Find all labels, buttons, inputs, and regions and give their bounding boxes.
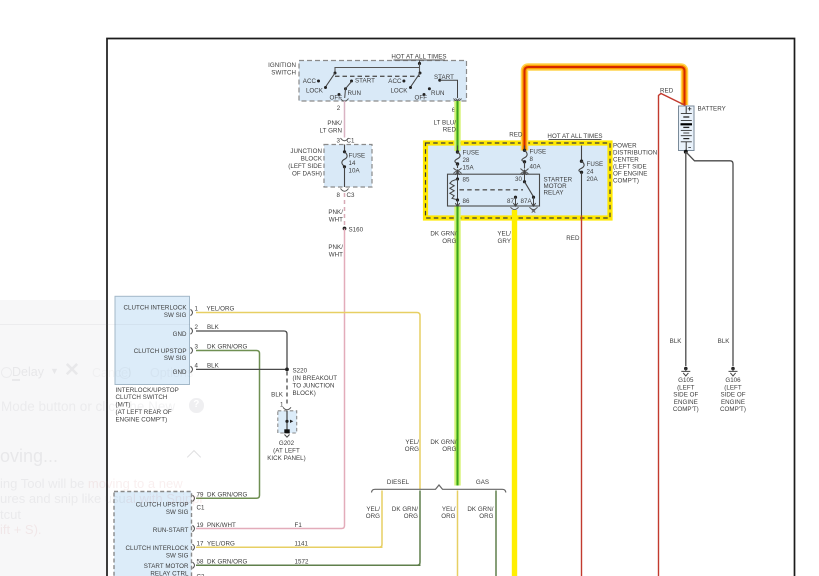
relay mechanical link (dashed) [460,189,524,191]
wire DK GRN/ORG diesel branch [392,491,420,566]
svg-text:G105: G105 [678,377,694,384]
svg-text:ORG: ORG [442,238,456,245]
clutch switch pin 4 [191,363,199,373]
svg-text:SW SIG: SW SIG [164,355,187,362]
wire BLK battery to G106 [686,152,733,366]
svg-text:ORG: ORG [366,513,380,520]
wire RED fuse 24 down [566,216,581,576]
svg-text:S160: S160 [349,227,364,234]
svg-text:ORG: ORG [404,513,418,520]
splice S220 [285,367,337,397]
svg-text:INTERLOCK/UPSTOP: INTERLOCK/UPSTOP [116,387,179,394]
ignition switch right pole contacts and lever [388,72,457,102]
svg-text:DK GRN/ORG: DK GRN/ORG [207,559,248,566]
wire label DK GRN/ORG above split [430,439,456,453]
svg-text:SIDE OF: SIDE OF [720,392,745,399]
svg-text:SIDE OF: SIDE OF [673,392,698,399]
wire RED battery positive thin branch [659,88,686,576]
svg-text:86: 86 [463,198,470,205]
power distribution center box [426,143,658,219]
fuse 28 15A [455,146,479,172]
svg-text:DK GRN/: DK GRN/ [430,231,456,238]
svg-text:ACC: ACC [303,78,317,85]
clutch switch pin 1 [191,306,199,316]
svg-text:GRY: GRY [498,238,511,245]
svg-text:OF DASH): OF DASH) [292,171,322,178]
relay pin 87 [507,196,518,207]
ignition switch left pole contacts and lever [303,72,375,102]
svg-text:ACC: ACC [388,78,402,85]
wire YEL/GRY relay 87 down (yellow highlighted) [497,210,514,576]
svg-text:HOT AT ALL TIMES: HOT AT ALL TIMES [391,54,446,61]
junction block [288,145,372,188]
relay coil [450,179,458,200]
svg-text:START: START [434,74,454,81]
svg-text:ORG: ORG [442,446,456,453]
svg-text:IGNITION: IGNITION [268,62,296,69]
svg-text:BLK: BLK [670,338,683,345]
svg-text:BLK: BLK [207,324,220,331]
svg-text:GND: GND [173,331,187,338]
svg-text:(LEFT: (LEFT [677,384,695,391]
svg-text:LT GRN: LT GRN [320,128,342,135]
svg-text:(LEFT SIDE: (LEFT SIDE [613,164,647,171]
svg-text:F1: F1 [295,522,303,529]
svg-text:COMP'T): COMP'T) [673,406,699,413]
svg-text:BLOCK: BLOCK [301,156,323,163]
svg-text:2: 2 [337,105,341,112]
connector C3 [337,189,356,200]
svg-text:ENGINE COMP'T): ENGINE COMP'T) [116,416,168,423]
svg-text:BLK: BLK [718,338,731,345]
svg-text:PNK/: PNK/ [328,244,343,251]
ground G105 [673,367,699,413]
wire RED battery feed (highlighted thick) [509,67,684,151]
node HOT AT ALL TIMES (ignition feed) [391,54,446,66]
svg-text:4: 4 [195,363,199,370]
svg-text:(IN BREAKOUT: (IN BREAKOUT [293,375,338,382]
svg-text:SW SIG: SW SIG [166,552,189,559]
svg-text:FUSE: FUSE [530,149,547,156]
connector arcs fuse28 to relay [454,168,462,174]
svg-text:PNK/: PNK/ [328,209,343,216]
svg-text:COMP'T): COMP'T) [720,406,746,413]
wire ignition internal bus [335,64,420,73]
svg-text:RUN: RUN [348,90,362,97]
svg-text:20A: 20A [587,176,599,183]
svg-text:C1: C1 [347,138,356,145]
svg-text:LT BLU/: LT BLU/ [434,120,457,127]
relay pin 87A [521,197,536,206]
svg-text:28: 28 [463,157,470,164]
svg-text:START: START [355,78,375,85]
svg-text:87A: 87A [521,198,533,205]
connector C1 [337,138,356,145]
svg-text:FUSE: FUSE [463,150,480,157]
ignition switch box [268,61,466,102]
ground G106 [720,367,746,413]
svg-text:ORG: ORG [479,513,493,520]
faded paragraph [0,476,202,538]
svg-text:DK GRN/: DK GRN/ [430,439,456,446]
svg-text:CLUTCH UPSTOP: CLUTCH UPSTOP [134,348,187,355]
splice S160 [343,227,364,234]
wire DK GRN/ORG pin3 to pin 79 [196,344,260,499]
fuse 14 10A [342,145,365,188]
svg-text:58: 58 [197,559,204,566]
svg-text:FUSE: FUSE [587,161,604,168]
G202 connector pin 1 [280,401,291,410]
wire PNK/WHT C3 to S160 (dashed) [328,193,344,227]
relay pin 86 [455,198,470,207]
PCM connector box [114,492,192,576]
svg-text:PNK/WHT: PNK/WHT [207,522,236,529]
svg-text:YEL/ORG: YEL/ORG [207,306,235,313]
wire BLK pin4 to S220 [196,363,287,370]
svg-text:SWITCH: SWITCH [271,70,296,77]
svg-text:ORG: ORG [441,513,455,520]
wire label PNK/WHT pin 19, circuit F1 [207,522,302,529]
svg-text:8: 8 [530,156,534,163]
svg-text:GAS: GAS [476,479,489,486]
svg-text:OF ENGINE: OF ENGINE [613,171,647,178]
svg-text:START MOTOR: START MOTOR [144,563,189,570]
clutch switch pin 2 [191,324,199,334]
node HOT AT ALL TIMES (PDC) [547,133,602,140]
wire BLK S220 to G202 (dashed) [271,372,287,407]
svg-text:PNK/: PNK/ [327,120,342,127]
wire BLK pin2 to S220 [196,324,287,368]
svg-text:G202: G202 [279,440,295,447]
svg-text:LOCK: LOCK [390,87,408,94]
svg-text:15A: 15A [463,165,475,172]
svg-text:YEL/: YEL/ [366,506,380,513]
svg-text:ENGINE: ENGINE [674,399,698,406]
wire DK GRN/ORG relay 86 down to split (green highlighted) [430,207,457,486]
svg-text:(LEFT SIDE: (LEFT SIDE [288,163,322,170]
connector arc below relay pin 87A (unused) [530,207,538,212]
interlock/upstop clutch switch box [115,296,190,423]
wire BLK battery to G105 [670,152,686,366]
battery B1 [679,106,726,151]
svg-text:KICK PANEL): KICK PANEL) [267,455,306,462]
svg-text:BLK: BLK [271,391,284,398]
svg-text:40A: 40A [530,164,542,171]
svg-text:YEL/: YEL/ [497,231,511,238]
faded UI separator line [0,324,190,325]
svg-text:YEL/: YEL/ [405,439,419,446]
svg-text:JUNCTION: JUNCTION [290,148,322,155]
wire DK GRN/ORG pin 58 circuit 1572 [196,559,421,566]
node battery negative [684,150,688,154]
svg-text:10A: 10A [349,168,361,175]
svg-text:BLK: BLK [207,363,220,370]
svg-text:RED: RED [660,88,674,95]
faded collapse chevron [187,450,201,464]
fuse 8 40A [522,146,546,171]
svg-text:1: 1 [195,306,199,313]
relay pin 30 [515,170,527,184]
fuse 24 20A [579,146,603,216]
svg-text:(AT LEFT: (AT LEFT [273,448,300,455]
svg-text:SW SIG: SW SIG [164,312,187,319]
svg-text:8: 8 [337,192,341,199]
svg-text:OFF: OFF [415,95,428,102]
svg-text:14: 14 [349,160,356,167]
pin 6 connector (ignition) [452,99,462,115]
svg-text:RUN: RUN [431,90,445,97]
svg-text:POWER: POWER [613,143,637,150]
svg-text:3: 3 [195,344,199,351]
svg-text:(LEFT: (LEFT [724,384,742,391]
svg-text:30: 30 [515,176,522,183]
wire DK GRN/ORG gas branch [467,491,496,576]
svg-text:85: 85 [463,177,470,184]
faded heading oving... [0,446,58,467]
svg-text:OFF: OFF [330,95,343,102]
svg-text:87: 87 [507,198,514,205]
svg-text:FUSE: FUSE [349,153,366,160]
wire YEL/ORG pin1 to split [196,306,420,490]
diagram frame border [107,39,795,576]
wire PNK/LT GRN pin2 to C1 [320,101,345,138]
svg-text:CLUTCH INTERLOCK: CLUTCH INTERLOCK [123,305,187,312]
svg-text:C3: C3 [347,192,356,199]
svg-text:LOCK: LOCK [306,87,324,94]
svg-text:BATTERY: BATTERY [698,106,726,113]
svg-text:DK GRN/: DK GRN/ [392,506,418,513]
ignition mechanical link (dashed) [335,75,420,77]
connector pin 79 [193,492,204,502]
faded text mode button row [1,399,175,414]
svg-text:HOT AT ALL TIMES: HOT AT ALL TIMES [547,133,602,140]
svg-text:RED: RED [509,132,523,139]
svg-text:DK GRN/ORG: DK GRN/ORG [207,344,248,351]
faded snipping tool toolbar [1,367,12,378]
wire LT BLU/RED pin6 to fuse 28 (green highlighted) [434,101,458,151]
svg-text:CLUTCH INTERLOCK: CLUTCH INTERLOCK [125,545,189,552]
svg-text:RED: RED [566,235,580,242]
faded help icon [189,398,204,413]
svg-text:COMP'T): COMP'T) [613,178,639,185]
svg-text:BLOCK): BLOCK) [293,390,316,397]
svg-text:DK GRN/ORG: DK GRN/ORG [207,492,248,499]
svg-text:ENGINE: ENGINE [721,399,745,406]
svg-text:G106: G106 [725,377,741,384]
svg-text:1141: 1141 [295,541,309,548]
relay pin 85 [455,170,470,184]
svg-text:17: 17 [197,541,204,548]
relay switch lever [525,182,536,199]
svg-text:WHT: WHT [329,252,343,259]
diesel/gas split bracket [372,479,506,493]
connector pin 19 [193,522,204,532]
wire YEL/ORG gas branch [441,491,457,576]
connector pin 58 [193,559,204,569]
wire YEL/ORG diesel branch [366,491,382,548]
svg-text:DISTRIBUTION: DISTRIBUTION [613,150,657,157]
svg-text:TO JUNCTION: TO JUNCTION [293,383,335,390]
svg-text:YEL/: YEL/ [442,506,456,513]
svg-text:RED: RED [443,127,457,134]
svg-text:YEL/ORG: YEL/ORG [207,541,235,548]
ground connector G202 box [267,411,306,462]
connector arc below relay pin 87 [511,207,519,209]
connector arcs fuse8 to relay pin30 [521,169,529,175]
clutch switch pin 3 [191,344,199,354]
connector pin 17 [193,541,204,551]
svg-text:DK GRN/: DK GRN/ [467,506,493,513]
wire YEL/ORG pin 17 circuit 1141 [196,541,383,548]
svg-text:DIESEL: DIESEL [387,479,410,486]
svg-text:3: 3 [337,138,341,145]
svg-text:S220: S220 [293,367,308,374]
svg-text:CENTER: CENTER [613,157,639,164]
starter motor relay box [448,174,573,206]
svg-text:WHT: WHT [329,217,343,224]
pin 2 connector (ignition) [337,99,349,113]
svg-text:2: 2 [195,324,199,331]
faded snipping-tool UI left margin background [0,300,106,576]
wire PNK/WHT S160 down to pin 19 row [196,229,345,529]
svg-text:RELAY: RELAY [544,190,564,197]
svg-text:1572: 1572 [295,559,309,566]
svg-text:ORG: ORG [405,446,419,453]
svg-text:24: 24 [587,169,594,176]
svg-text:RELAY CTRL: RELAY CTRL [150,570,189,576]
